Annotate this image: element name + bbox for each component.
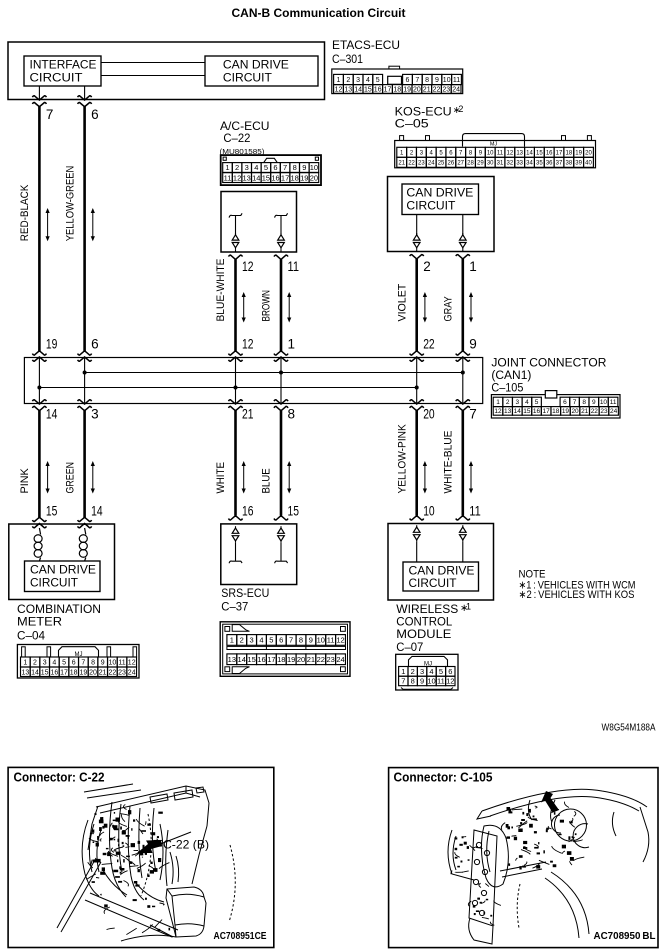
svg-text:C–05: C–05 — [395, 116, 429, 130]
svg-text:W8G54M188A: W8G54M188A — [602, 721, 656, 733]
svg-text:23: 23 — [118, 669, 126, 676]
connector symbol at joint connector entry — [229, 351, 243, 361]
svg-text:7: 7 — [401, 677, 405, 686]
ECU box ETACS-ECU — [8, 42, 325, 100]
svg-text:CIRCUIT: CIRCUIT — [406, 201, 455, 213]
svg-text:9: 9 — [469, 337, 477, 352]
svg-text:23: 23 — [418, 160, 425, 166]
svg-text:4: 4 — [52, 660, 56, 667]
connector symbol at combination meter entry — [78, 517, 92, 528]
title: CAN-B Communication Circuit — [232, 6, 406, 20]
svg-text:19: 19 — [403, 86, 411, 93]
connector symbol at ETACS box exit (pin 6) — [78, 96, 92, 107]
svg-text:1: 1 — [225, 163, 229, 172]
svg-text:7: 7 — [573, 399, 577, 406]
svg-text:∗2 : VEHICLES WITH KOS: ∗2 : VEHICLES WITH KOS — [519, 589, 635, 601]
svg-text:16: 16 — [546, 150, 553, 156]
svg-text:20: 20 — [310, 173, 318, 182]
svg-text:8: 8 — [91, 660, 95, 667]
connector symbol at ECU entry — [274, 516, 288, 520]
svg-text:13: 13 — [516, 150, 523, 156]
svg-text:3: 3 — [250, 636, 254, 645]
connector symbol at joint connector exit — [274, 400, 288, 411]
pin number 1 — [469, 259, 477, 274]
svg-text:27: 27 — [457, 160, 464, 166]
svg-text:24: 24 — [452, 86, 460, 93]
svg-text:12: 12 — [233, 173, 241, 182]
svg-text:14: 14 — [46, 407, 58, 422]
svg-text:13: 13 — [344, 86, 352, 93]
svg-text:15: 15 — [262, 173, 270, 182]
svg-text:(CAN1): (CAN1) — [491, 370, 531, 382]
svg-text:13: 13 — [21, 669, 29, 676]
svg-text:11: 11 — [497, 150, 504, 156]
ECU box wireless control module — [388, 524, 494, 601]
wire label PINK — [19, 468, 31, 494]
twisted pair arrow — [242, 461, 246, 494]
svg-text:YELLOW-PINK: YELLOW-PINK — [396, 424, 408, 494]
svg-text:8: 8 — [288, 407, 296, 422]
svg-text:11: 11 — [288, 259, 300, 274]
svg-text:C-22 (B): C-22 (B) — [163, 838, 209, 852]
svg-text:11: 11 — [224, 173, 232, 182]
wire GREEN (joint connector to ECU) — [83, 411, 86, 518]
svg-text:10: 10 — [108, 660, 116, 667]
WCM internal terminator symbols — [413, 525, 466, 562]
svg-text:AC708951CE: AC708951CE — [214, 930, 267, 942]
wire through joint connector — [38, 358, 40, 404]
svg-text:18: 18 — [70, 669, 78, 676]
label SRS-ECU C-37 — [221, 586, 269, 614]
label A/C-ECU C-22 (MU801585) — [220, 119, 270, 156]
svg-text:1: 1 — [469, 259, 477, 274]
svg-text:RED-BLACK: RED-BLACK — [19, 184, 31, 241]
wire BLUE (joint connector to ECU) — [280, 411, 283, 516]
connector C-301 (24 pin) — [332, 66, 463, 93]
svg-text:10: 10 — [427, 677, 435, 686]
svg-text:11: 11 — [453, 77, 460, 84]
svg-text:9: 9 — [420, 677, 424, 686]
svg-text:7: 7 — [283, 163, 287, 172]
svg-text:12: 12 — [446, 677, 454, 686]
pin number 7 — [46, 107, 54, 122]
bus junction dots — [37, 371, 464, 390]
label ETACS-ECU C-301 — [332, 38, 400, 66]
connector symbol at ETACS box exit (pin 7) — [32, 96, 46, 107]
svg-text:5: 5 — [376, 77, 380, 84]
twisted pair arrow — [287, 461, 291, 494]
svg-text:6: 6 — [273, 163, 277, 172]
svg-text:26: 26 — [448, 160, 455, 166]
svg-text:5: 5 — [535, 399, 539, 406]
svg-text:15: 15 — [46, 504, 58, 519]
joint connector (CAN1) box — [24, 358, 482, 404]
svg-text:22: 22 — [108, 669, 116, 676]
svg-text:4: 4 — [366, 77, 370, 84]
svg-text:6: 6 — [72, 660, 76, 667]
connector C-05 (40 pin) — [395, 134, 596, 168]
connector symbol at ECU entry — [456, 516, 470, 520]
svg-text:5: 5 — [264, 163, 268, 172]
twisted pair arrow — [423, 461, 427, 494]
svg-text:8: 8 — [582, 399, 586, 406]
svg-text:3: 3 — [245, 163, 249, 172]
label WIRELESS*1 CONTROL MODULE C-07 — [396, 602, 471, 654]
wire GRAY (to joint connector) — [461, 259, 464, 352]
svg-text:GREEN: GREEN — [64, 462, 76, 494]
svg-text:40: 40 — [585, 160, 592, 166]
svg-text:17: 17 — [556, 150, 563, 156]
svg-text:2: 2 — [411, 667, 415, 676]
ECU box combination meter — [9, 524, 115, 600]
svg-text:2: 2 — [240, 636, 244, 645]
svg-text:9: 9 — [302, 163, 306, 172]
svg-text:12: 12 — [507, 150, 514, 156]
svg-text:19: 19 — [300, 173, 308, 182]
wire PINK (joint connector to ECU) — [38, 411, 41, 518]
svg-text:3: 3 — [91, 407, 99, 422]
svg-text:20: 20 — [413, 86, 421, 93]
connector symbol at ECU exit (pin 1) — [456, 255, 470, 259]
connector C-04 (24 pin MJ) — [17, 645, 139, 679]
svg-text:3: 3 — [515, 399, 519, 406]
svg-text:11: 11 — [327, 636, 335, 645]
svg-text:17: 17 — [60, 669, 68, 676]
svg-text:SRS-ECU: SRS-ECU — [221, 586, 269, 600]
label JOINT CONNECTOR (CAN1) C-105 — [491, 358, 606, 395]
svg-text:VIOLET: VIOLET — [396, 283, 408, 321]
svg-text:7: 7 — [46, 107, 54, 122]
combination meter coil symbols — [34, 528, 87, 561]
svg-text:CAN DRIVE: CAN DRIVE — [406, 187, 473, 199]
svg-text:14: 14 — [354, 86, 362, 93]
svg-text:14: 14 — [252, 173, 260, 182]
KOS internal wires + CAN terminators — [413, 215, 466, 252]
connector symbol at ECU exit (pin 2) — [410, 255, 424, 259]
svg-text:12: 12 — [242, 259, 254, 274]
svg-text:39: 39 — [575, 160, 582, 166]
svg-text:12: 12 — [128, 660, 136, 667]
CAN bus line 1 (upper) — [85, 372, 463, 374]
wire WHITE-BLUE (joint connector to ECU) — [461, 411, 464, 516]
svg-text:6: 6 — [448, 667, 452, 676]
svg-text:3: 3 — [356, 77, 360, 84]
svg-text:6: 6 — [563, 399, 567, 406]
connector symbol at combination meter entry — [32, 517, 46, 528]
svg-text:INTERFACE: INTERFACE — [30, 60, 97, 72]
wire VIOLET (to joint connector) — [415, 259, 418, 352]
svg-text:10: 10 — [443, 77, 451, 84]
svg-text:2: 2 — [346, 77, 350, 84]
pin number 6 (joint connector top) — [91, 337, 99, 352]
pin number 22 (joint connector top) — [423, 337, 435, 352]
twisted pair arrow — [469, 292, 473, 323]
pin number 14 (ECU entry) — [91, 504, 103, 519]
svg-text:16: 16 — [533, 408, 541, 415]
SRS internal terminator symbols — [229, 526, 287, 563]
svg-text:34: 34 — [526, 160, 533, 166]
svg-text:30: 30 — [487, 160, 494, 166]
pin number 9 (joint connector top) — [469, 337, 477, 352]
connector symbol at ECU entry — [410, 516, 424, 520]
svg-text:1: 1 — [337, 77, 341, 84]
wire WHITE (joint connector to ECU) — [234, 411, 237, 516]
svg-text:22: 22 — [591, 408, 599, 415]
wire label BLUE-WHITE — [215, 259, 227, 322]
svg-text:21: 21 — [423, 86, 431, 93]
connector symbol at ECU exit (pin 12) — [229, 255, 243, 259]
svg-text:AC708950 BL: AC708950 BL — [594, 930, 657, 942]
connector symbol at joint connector exit — [78, 400, 92, 411]
svg-text:20: 20 — [89, 669, 97, 676]
pin number 1 (joint connector top) — [288, 337, 296, 352]
svg-text:GRAY: GRAY — [443, 296, 455, 322]
ECU box A/C-ECU — [221, 192, 297, 253]
svg-text:1: 1 — [23, 660, 27, 667]
wire label YELLOW-PINK — [396, 424, 408, 494]
can drive circuit block (combination meter) — [25, 561, 101, 592]
svg-text:6: 6 — [406, 77, 410, 84]
svg-text:14: 14 — [514, 408, 522, 415]
twisted pair arrow — [46, 208, 50, 241]
svg-text:2: 2 — [506, 399, 510, 406]
svg-text:C–105: C–105 — [491, 383, 523, 395]
wire RED-BLACK (to joint connector) — [38, 107, 41, 352]
wire pin 6 inside ETACS box — [84, 86, 86, 100]
wire label VIOLET — [396, 283, 408, 321]
svg-text:C–04: C–04 — [17, 629, 45, 643]
svg-text:16: 16 — [374, 86, 382, 93]
pin number 16 (ECU entry) — [242, 504, 254, 519]
wire label RED-BLACK — [19, 184, 31, 241]
connector symbol at joint connector exit — [32, 400, 46, 411]
wire label GREEN — [64, 462, 76, 494]
svg-text:C–37: C–37 — [221, 600, 248, 614]
svg-text:7: 7 — [469, 407, 477, 422]
connector symbol at joint connector entry — [32, 351, 46, 361]
wire YELLOW-GREEN (to joint connector) — [83, 107, 86, 352]
svg-text:15: 15 — [523, 408, 531, 415]
svg-text:36: 36 — [546, 160, 553, 166]
svg-text:23: 23 — [600, 408, 608, 415]
svg-text:5: 5 — [62, 660, 66, 667]
svg-text:5: 5 — [269, 636, 273, 645]
svg-text:14: 14 — [526, 150, 533, 156]
wire through joint connector — [235, 358, 237, 404]
svg-text:15: 15 — [536, 150, 543, 156]
svg-text:14: 14 — [238, 655, 246, 664]
svg-text:16: 16 — [242, 504, 254, 519]
connector symbol at joint connector entry — [274, 351, 288, 361]
pin number 20 (joint connector bottom) — [423, 407, 435, 422]
svg-text:CIRCUIT: CIRCUIT — [409, 578, 457, 590]
wire label YELLOW-GREEN — [64, 166, 76, 242]
svg-text:2: 2 — [33, 660, 37, 667]
pin number 7 (joint connector bottom) — [469, 407, 477, 422]
svg-text:18: 18 — [291, 173, 299, 182]
svg-text:9: 9 — [435, 77, 439, 84]
svg-text:8: 8 — [299, 636, 303, 645]
svg-text:19: 19 — [46, 337, 58, 352]
svg-text:2: 2 — [423, 259, 431, 274]
svg-text:22: 22 — [433, 86, 441, 93]
svg-text:16: 16 — [50, 669, 58, 676]
svg-text:11: 11 — [118, 660, 125, 667]
svg-text:19: 19 — [287, 655, 295, 664]
pin number 12 (joint connector top) — [242, 337, 254, 352]
wire label BROWN — [261, 290, 273, 322]
svg-text:18: 18 — [552, 408, 560, 415]
svg-text:CAN DRIVE: CAN DRIVE — [30, 565, 96, 577]
svg-text:JOINT CONNECTOR: JOINT CONNECTOR — [491, 358, 606, 370]
svg-text:12: 12 — [242, 337, 254, 352]
svg-text:20: 20 — [297, 655, 305, 664]
svg-text:ETACS-ECU: ETACS-ECU — [332, 38, 400, 52]
CAN bus line 2 (lower) — [39, 387, 416, 389]
twisted pair arrow — [91, 208, 95, 241]
twisted pair arrow — [287, 292, 291, 323]
svg-text:19: 19 — [79, 669, 87, 676]
svg-text:13: 13 — [228, 655, 236, 664]
pin number 15 (ECU entry) — [46, 504, 58, 519]
svg-text:6: 6 — [279, 636, 283, 645]
svg-text:11: 11 — [469, 504, 481, 519]
can drive circuit block (KOS) — [402, 184, 479, 215]
svg-text:24: 24 — [336, 655, 344, 664]
svg-text:WHITE-BLUE: WHITE-BLUE — [443, 431, 455, 494]
pin number 15 (ECU entry) — [288, 504, 300, 519]
svg-text:38: 38 — [565, 160, 572, 166]
pin number 19 (joint connector top) — [46, 337, 58, 352]
svg-text:2: 2 — [235, 163, 239, 172]
svg-text:16: 16 — [271, 173, 279, 182]
svg-text:23: 23 — [442, 86, 450, 93]
svg-text:22: 22 — [423, 337, 435, 352]
svg-text:10: 10 — [317, 636, 325, 645]
svg-text:7: 7 — [415, 77, 419, 84]
svg-text:18: 18 — [565, 150, 572, 156]
svg-text:PINK: PINK — [19, 468, 31, 494]
svg-text:14: 14 — [31, 669, 39, 676]
wire label WHITE-BLUE — [443, 431, 455, 494]
svg-text:12: 12 — [336, 636, 344, 645]
svg-text:15: 15 — [364, 86, 372, 93]
svg-text:7: 7 — [289, 636, 293, 645]
svg-text:16: 16 — [257, 655, 265, 664]
svg-text:C–07: C–07 — [396, 640, 423, 654]
pin number 10 (ECU entry) — [423, 504, 435, 519]
svg-text:4: 4 — [259, 636, 263, 645]
svg-text:21: 21 — [398, 160, 405, 166]
interface circuit block — [24, 56, 101, 86]
twisted pair arrow — [91, 461, 95, 494]
svg-text:21: 21 — [99, 669, 107, 676]
svg-text:18: 18 — [277, 655, 285, 664]
svg-text:5: 5 — [439, 667, 443, 676]
svg-text:21: 21 — [307, 655, 315, 664]
svg-text:8: 8 — [425, 77, 429, 84]
svg-text:7: 7 — [81, 660, 85, 667]
svg-text:13: 13 — [504, 408, 512, 415]
svg-text:10: 10 — [310, 163, 318, 172]
svg-text:CAN DRIVE: CAN DRIVE — [223, 60, 289, 72]
svg-text:20: 20 — [585, 150, 592, 156]
pin number 14 (joint connector bottom) — [46, 407, 58, 422]
svg-text:3: 3 — [43, 660, 47, 667]
svg-text:1: 1 — [466, 602, 471, 612]
svg-text:10: 10 — [600, 399, 608, 406]
svg-text:15: 15 — [247, 655, 255, 664]
svg-text:9: 9 — [101, 660, 105, 667]
pin number 12 — [242, 259, 254, 274]
svg-text:24: 24 — [428, 160, 435, 166]
pin number 3 (joint connector bottom) — [91, 407, 99, 422]
svg-text:12: 12 — [335, 86, 343, 93]
wire through joint connector — [416, 358, 418, 404]
connector symbol at joint connector entry — [78, 351, 92, 361]
svg-text:24: 24 — [128, 669, 136, 676]
svg-text:YELLOW-GREEN: YELLOW-GREEN — [64, 166, 76, 242]
svg-text:20: 20 — [571, 408, 579, 415]
connector C-07 (12 pin MJ) — [396, 654, 458, 690]
pin number 6 — [91, 107, 99, 122]
connector C-105 (24 pin) — [491, 391, 620, 418]
svg-text:25: 25 — [438, 160, 445, 166]
svg-text:18: 18 — [393, 86, 401, 93]
can drive circuit block (ETACS) — [205, 56, 318, 86]
wire through joint connector — [84, 358, 86, 404]
svg-text:11: 11 — [437, 677, 445, 686]
svg-text:9: 9 — [592, 399, 596, 406]
svg-text:10: 10 — [423, 504, 435, 519]
svg-text:3: 3 — [420, 667, 424, 676]
svg-text:BROWN: BROWN — [261, 290, 273, 322]
pin number 21 (joint connector bottom) — [242, 407, 254, 422]
connector symbol at joint connector entry — [456, 351, 470, 361]
svg-text:21: 21 — [581, 408, 589, 415]
wire BLUE-WHITE (to joint connector) — [234, 259, 237, 351]
svg-text:37: 37 — [556, 160, 563, 166]
svg-text:19: 19 — [562, 408, 570, 415]
pin number 11 (ECU entry) — [469, 504, 481, 519]
wire label BLUE — [261, 468, 273, 493]
svg-text:35: 35 — [536, 160, 543, 166]
svg-text:13: 13 — [243, 173, 251, 182]
pin number 8 (joint connector bottom) — [288, 407, 296, 422]
svg-text:24: 24 — [610, 408, 618, 415]
connector symbol at joint connector entry — [410, 351, 424, 361]
wire: interface to can drive (2 lines) — [101, 63, 205, 76]
svg-text:4: 4 — [254, 163, 258, 172]
svg-text:1: 1 — [288, 337, 296, 352]
svg-text:22: 22 — [408, 160, 415, 166]
svg-text:CAN-B Communication Circuit: CAN-B Communication Circuit — [232, 6, 406, 20]
svg-text:14: 14 — [91, 504, 103, 519]
connector symbol at joint connector exit — [456, 400, 470, 411]
svg-text:CIRCUIT: CIRCUIT — [30, 73, 83, 85]
svg-text:CIRCUIT: CIRCUIT — [223, 73, 272, 85]
svg-text:CAN DRIVE: CAN DRIVE — [409, 566, 475, 578]
svg-text:12: 12 — [494, 408, 502, 415]
svg-text:Connector: C-105: Connector: C-105 — [394, 771, 493, 785]
svg-text:CIRCUIT: CIRCUIT — [30, 578, 78, 590]
svg-text:23: 23 — [326, 655, 334, 664]
svg-text:2: 2 — [458, 104, 463, 114]
wire pin 7 inside ETACS box — [38, 86, 40, 100]
label COMBINATION METER C-04 — [17, 602, 101, 643]
twisted pair arrow — [46, 461, 50, 494]
svg-text:1: 1 — [230, 636, 234, 645]
